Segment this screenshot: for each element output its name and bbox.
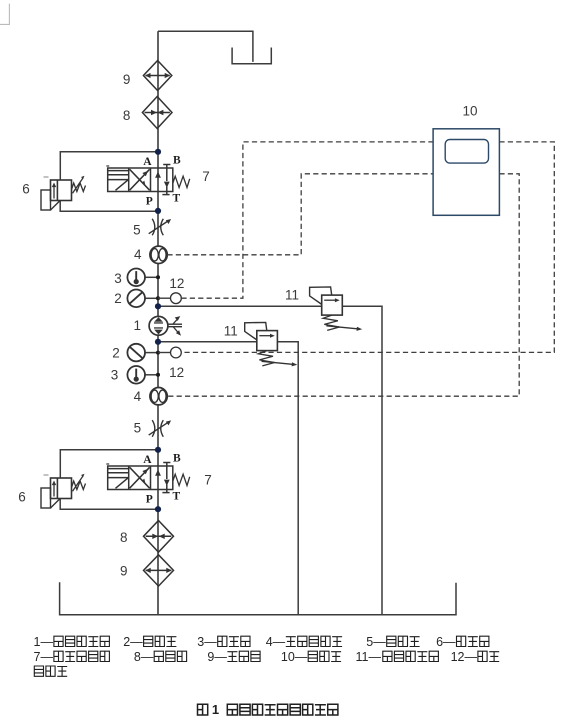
pressure sensor 12 (upper) xyxy=(158,293,181,304)
thermometer 3 (lower) xyxy=(127,366,158,384)
dashed line recorder to flow sensor 4 lower xyxy=(168,174,519,396)
svg-text:8: 8 xyxy=(120,530,128,545)
svg-text:B: B xyxy=(173,154,181,166)
thermometer 3 (upper) xyxy=(127,269,158,287)
minus mark near valve 6 lower xyxy=(44,474,49,476)
wire main vertical line xyxy=(157,31,159,615)
minus mark near valve 6 upper xyxy=(44,176,49,178)
svg-text:9: 9 xyxy=(120,563,128,578)
legend line 3: sensor (wrapped) xyxy=(34,666,67,676)
svg-text:8—: 8— xyxy=(134,650,154,664)
svg-text:6: 6 xyxy=(22,182,30,197)
tank top xyxy=(232,48,271,64)
svg-text:1: 1 xyxy=(212,702,219,717)
svg-text:P: P xyxy=(146,494,153,506)
pressure sensor 12 (lower) xyxy=(158,347,181,358)
dashed line recorder to pressure sensor 12 lower xyxy=(181,142,554,353)
dashed line pressure sensor 12 upper to recorder xyxy=(181,142,433,298)
svg-text:11: 11 xyxy=(285,288,299,303)
heater 8 (upper) diamond xyxy=(142,97,172,129)
svg-text:2: 2 xyxy=(112,346,120,361)
wire main-to-top-tank xyxy=(158,31,253,62)
svg-text:4—: 4— xyxy=(266,635,286,649)
svg-text:1: 1 xyxy=(133,318,141,333)
junction node 4 xyxy=(155,339,161,345)
svg-text:A: A xyxy=(143,454,152,466)
svg-text:10—: 10— xyxy=(281,650,308,664)
svg-text:9: 9 xyxy=(123,72,131,87)
svg-text:12: 12 xyxy=(169,365,184,380)
svg-text:T: T xyxy=(172,193,180,205)
svg-text:1—: 1— xyxy=(34,635,54,649)
svg-text:4: 4 xyxy=(134,247,142,262)
throttle valve 5 (upper) xyxy=(149,219,171,236)
cooler 9 (upper) diamond xyxy=(143,61,171,91)
svg-text:A: A xyxy=(143,156,152,168)
wire to manual safety valve 11 lower xyxy=(158,342,298,615)
svg-text:3—: 3— xyxy=(197,635,217,649)
port labels A B P T upper xyxy=(143,154,181,207)
cooler 9 (lower) diamond xyxy=(144,555,174,586)
wire to manual safety valve 11 upper xyxy=(158,306,382,614)
svg-text:T: T xyxy=(172,491,180,503)
svg-text:2: 2 xyxy=(114,291,122,306)
svg-text:P: P xyxy=(146,196,153,208)
page corner mark xyxy=(0,4,9,25)
svg-text:2—: 2— xyxy=(123,635,143,649)
node tee thermometer 3 upper xyxy=(156,275,160,279)
heater 8 (lower) diamond xyxy=(144,521,174,553)
loading valve 6 lower xyxy=(41,474,85,508)
svg-text:5: 5 xyxy=(134,421,142,436)
svg-text:12: 12 xyxy=(169,276,184,291)
port labels A B P T lower xyxy=(143,452,181,505)
svg-text:5—: 5— xyxy=(366,635,386,649)
svg-text:B: B xyxy=(173,452,181,464)
directional control valve 7 lower xyxy=(106,463,189,493)
svg-text:9—: 9— xyxy=(207,650,227,664)
svg-text:3: 3 xyxy=(111,368,119,383)
throttle valve 5 (lower) xyxy=(149,420,171,437)
node cross gauge 2 upper xyxy=(156,296,160,300)
manual safety valve 11 (lower) xyxy=(245,322,298,366)
loading valve 6 upper xyxy=(41,176,85,210)
manual safety valve 11 (upper) xyxy=(310,287,363,331)
svg-text:11: 11 xyxy=(224,324,238,339)
flow sensor 4 (upper) xyxy=(150,246,167,263)
svg-text:4: 4 xyxy=(134,389,142,404)
svg-text:6—: 6— xyxy=(436,635,456,649)
node tee thermometer 3 lower xyxy=(156,373,160,377)
node cross gauge 2 lower xyxy=(156,351,160,355)
pump 1 (unit under test) xyxy=(149,316,182,336)
wire loop to loading valve upper xyxy=(60,152,158,211)
directional control valve 7 upper xyxy=(106,165,189,195)
junction node 3 xyxy=(155,303,161,309)
junction node 2 xyxy=(155,208,161,214)
svg-text:6: 6 xyxy=(18,490,26,505)
svg-text:7: 7 xyxy=(202,169,210,184)
recorder 10 xyxy=(433,129,499,216)
dashed line flow sensor 4 upper to recorder xyxy=(167,174,433,255)
wire loop to loading valve lower xyxy=(60,450,158,509)
pressure gauge 2 (lower) xyxy=(127,344,158,362)
svg-text:5: 5 xyxy=(133,222,141,237)
flow sensor 4 (lower) xyxy=(150,388,167,405)
svg-text:11—: 11— xyxy=(356,650,382,664)
junction node 1 xyxy=(155,149,161,155)
junction node 5 xyxy=(155,447,161,453)
pressure gauge 2 (upper) xyxy=(127,290,158,308)
svg-text:8: 8 xyxy=(123,108,131,123)
tank bottom xyxy=(60,582,456,615)
svg-text:3: 3 xyxy=(114,271,122,286)
svg-text:7: 7 xyxy=(204,473,212,488)
junction node 6 xyxy=(155,506,161,512)
svg-text:10: 10 xyxy=(462,103,477,118)
caption: figure 1 characteristic test circuit schematic xyxy=(198,704,208,715)
svg-text:7—: 7— xyxy=(34,650,54,664)
svg-text:12—: 12— xyxy=(451,650,478,664)
